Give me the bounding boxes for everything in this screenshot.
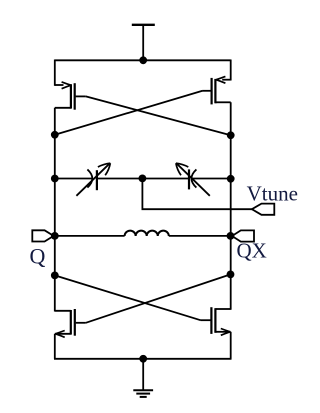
pin Vtune terminal — [252, 204, 274, 215]
wire left rail middle — [54, 108, 56, 312]
transistor M1 (top-left PMOS) — [55, 82, 86, 110]
wire varactor row left segment — [55, 178, 92, 180]
transistor M2 (top-right PMOS) — [203, 76, 231, 104]
node bottom rail junction — [139, 355, 147, 363]
wire M3 gate cross-couple diagonal to right node — [86, 274, 231, 322]
node Q junction — [51, 232, 59, 240]
wire M2 gate cross-couple diagonal to left node — [55, 91, 203, 135]
node varactor mid junction — [139, 175, 147, 183]
node QX junction — [227, 232, 235, 240]
varactor CV1 (left) — [76, 163, 110, 196]
wire left rail lower — [54, 334, 56, 359]
svg-text:Vtune: Vtune — [247, 181, 298, 205]
varactor CV2 (right) — [176, 163, 210, 196]
wire M1 gate cross-couple diagonal to right node — [86, 96, 231, 135]
wire varactor row right segment — [191, 178, 230, 180]
node bottom-right cross junction — [227, 271, 235, 279]
supply VDD bar — [132, 24, 155, 26]
wire varactor row mid-right segment — [142, 178, 189, 180]
label QX — [237, 238, 267, 262]
wire right rail upper — [230, 60, 232, 81]
transistor M3 (bottom-left NMOS) — [55, 309, 86, 337]
wire varactor row mid-left segment — [97, 178, 142, 180]
wire Q row left segment — [55, 235, 125, 237]
node right drain junction — [227, 131, 235, 139]
wire M4 gate cross-couple diagonal to left node — [55, 275, 201, 320]
node varactor right rail junction — [227, 175, 235, 183]
svg-text:Q: Q — [30, 244, 46, 269]
wire right rail lower — [230, 332, 232, 359]
label Vtune — [247, 181, 298, 205]
label Q — [30, 244, 46, 269]
node left drain junction — [51, 131, 59, 139]
ground — [133, 359, 153, 397]
wire bottom rail — [54, 358, 232, 360]
wire top rail — [55, 59, 231, 61]
wire Vtune drop — [142, 179, 252, 210]
wire VDD stem — [142, 25, 144, 61]
svg-text:QX: QX — [237, 238, 267, 262]
pin QX terminal — [232, 230, 254, 241]
wire right rail middle — [230, 102, 232, 309]
transistor M4 (bottom-right NMOS) — [201, 307, 231, 335]
wire Q row right segment — [169, 235, 231, 237]
wire left rail upper — [54, 60, 56, 86]
inductor L1 — [125, 231, 169, 236]
node bottom-left cross junction — [51, 272, 59, 280]
node varactor left rail junction — [51, 175, 59, 183]
node top rail junction — [139, 56, 147, 64]
pin Q terminal — [32, 230, 53, 241]
